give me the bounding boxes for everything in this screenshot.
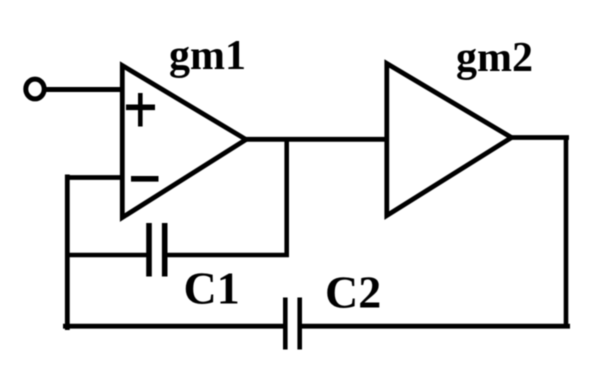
capacitor C1 [149, 223, 165, 277]
capacitor C2 [285, 298, 299, 350]
wire: gm2 output to right vertical feedback [510, 135, 569, 140]
gm1 noninverting (+) input marker [126, 93, 155, 127]
wire: C1 loop, right segment to gm1 output node [165, 253, 289, 258]
wire: bottom feedback, left segment to C2 [63, 324, 286, 329]
node: junction at gm1 output, wire down to C1 [284, 139, 289, 257]
wire: input terminal to gm1 noninverting input [44, 87, 124, 92]
wire: gm1 output to gm2 input [244, 137, 387, 142]
op-amp gm2 (transconductance amplifier triangle) [387, 64, 512, 216]
wire: bottom feedback, right segment from C2 to right vertical [300, 324, 570, 329]
svg-text:C2: C2 [325, 267, 381, 318]
wire: right vertical feedback (gm2 output down to bottom) [564, 138, 569, 327]
gm1 inverting (-) input marker [131, 176, 159, 182]
wire: C1 loop, left segment [65, 253, 147, 258]
wire: feedback into gm1 inverting input [65, 175, 124, 180]
input terminal (open circle) [26, 79, 44, 99]
svg-text:C1: C1 [184, 263, 240, 314]
svg-text:gm2: gm2 [456, 35, 533, 81]
svg-text:gm1: gm1 [169, 33, 246, 79]
wire: left vertical feedback (from gm1 inverting input down to bottom) [65, 175, 70, 331]
op-amp gm1 (transconductance amplifier triangle) [122, 66, 246, 218]
